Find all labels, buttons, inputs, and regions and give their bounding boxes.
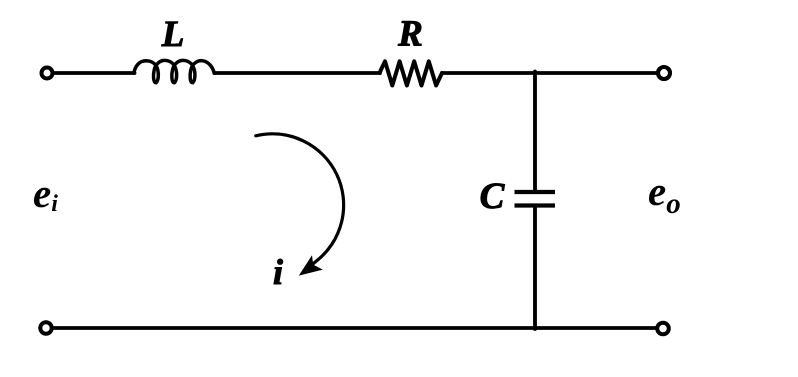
svg-text:eo: eo [648, 168, 681, 220]
wire top rail: input terminal to inductor [55, 71, 135, 75]
terminal bottom-right [657, 323, 669, 335]
svg-text:ei: ei [33, 170, 58, 217]
capacitor C top plate [515, 190, 556, 194]
wire capacitor bottom lead [533, 206, 537, 330]
terminal top-left [42, 68, 53, 79]
capacitor C bottom plate [515, 203, 556, 207]
wire capacitor top lead [533, 72, 537, 193]
svg-text:C: C [480, 176, 506, 217]
wire top rail: inductor to resistor [214, 71, 380, 75]
inductor L [134, 60, 214, 82]
terminal top-right [658, 67, 670, 79]
wire top rail: resistor to output terminal (through capacitor junction) [442, 71, 657, 75]
svg-text:i: i [273, 252, 283, 292]
svg-text:L: L [161, 14, 185, 55]
resistor R [380, 61, 443, 85]
terminal bottom-left [40, 322, 51, 333]
current arrow i (arrowhead) [299, 255, 323, 275]
wire bottom rail [54, 326, 656, 330]
current arrow i (curved arc) [256, 134, 344, 271]
svg-text:R: R [397, 14, 423, 55]
